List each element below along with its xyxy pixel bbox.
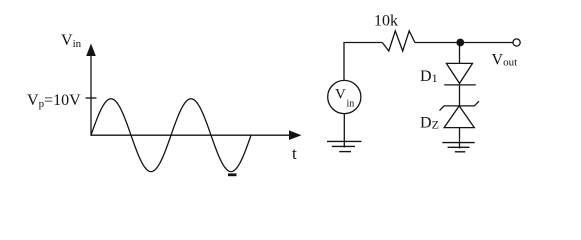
svg-text:10k: 10k (374, 13, 398, 30)
ground (zener) (442, 143, 474, 152)
ground (source) (327, 141, 362, 151)
svg-text:DZ: DZ (420, 115, 439, 132)
wire resistor to Vout terminal (415, 42, 513, 44)
zener diode DZ (440, 101, 480, 127)
resistor R 10k (382, 31, 415, 51)
horizontal axis t (91, 134, 291, 136)
Vp tick on vertical axis (86, 97, 97, 99)
wire source to ground (343, 114, 345, 148)
node junction dot (456, 39, 464, 47)
svg-text:D1: D1 (420, 68, 438, 85)
svg-text:Vp=10V: Vp=10V (27, 92, 81, 110)
svg-text:in: in (347, 99, 355, 110)
wire junction to diode D1 (459, 43, 461, 64)
wire D1 to zener DZ (459, 85, 461, 106)
horizontal axis arrowhead (289, 130, 302, 140)
svg-text:V: V (335, 87, 346, 103)
terminal Vout (open circle) (513, 39, 520, 46)
vertical axis arrowhead (86, 44, 96, 57)
wire source top to resistor (344, 43, 382, 81)
vertical axis Vin (90, 54, 92, 136)
wire zener to ground (459, 128, 461, 149)
svg-text:t: t (292, 144, 297, 163)
diode D1 (444, 63, 475, 85)
sine waveform (91, 99, 251, 172)
source Vin circle (328, 80, 361, 113)
-Vp mark at second trough (228, 173, 237, 176)
